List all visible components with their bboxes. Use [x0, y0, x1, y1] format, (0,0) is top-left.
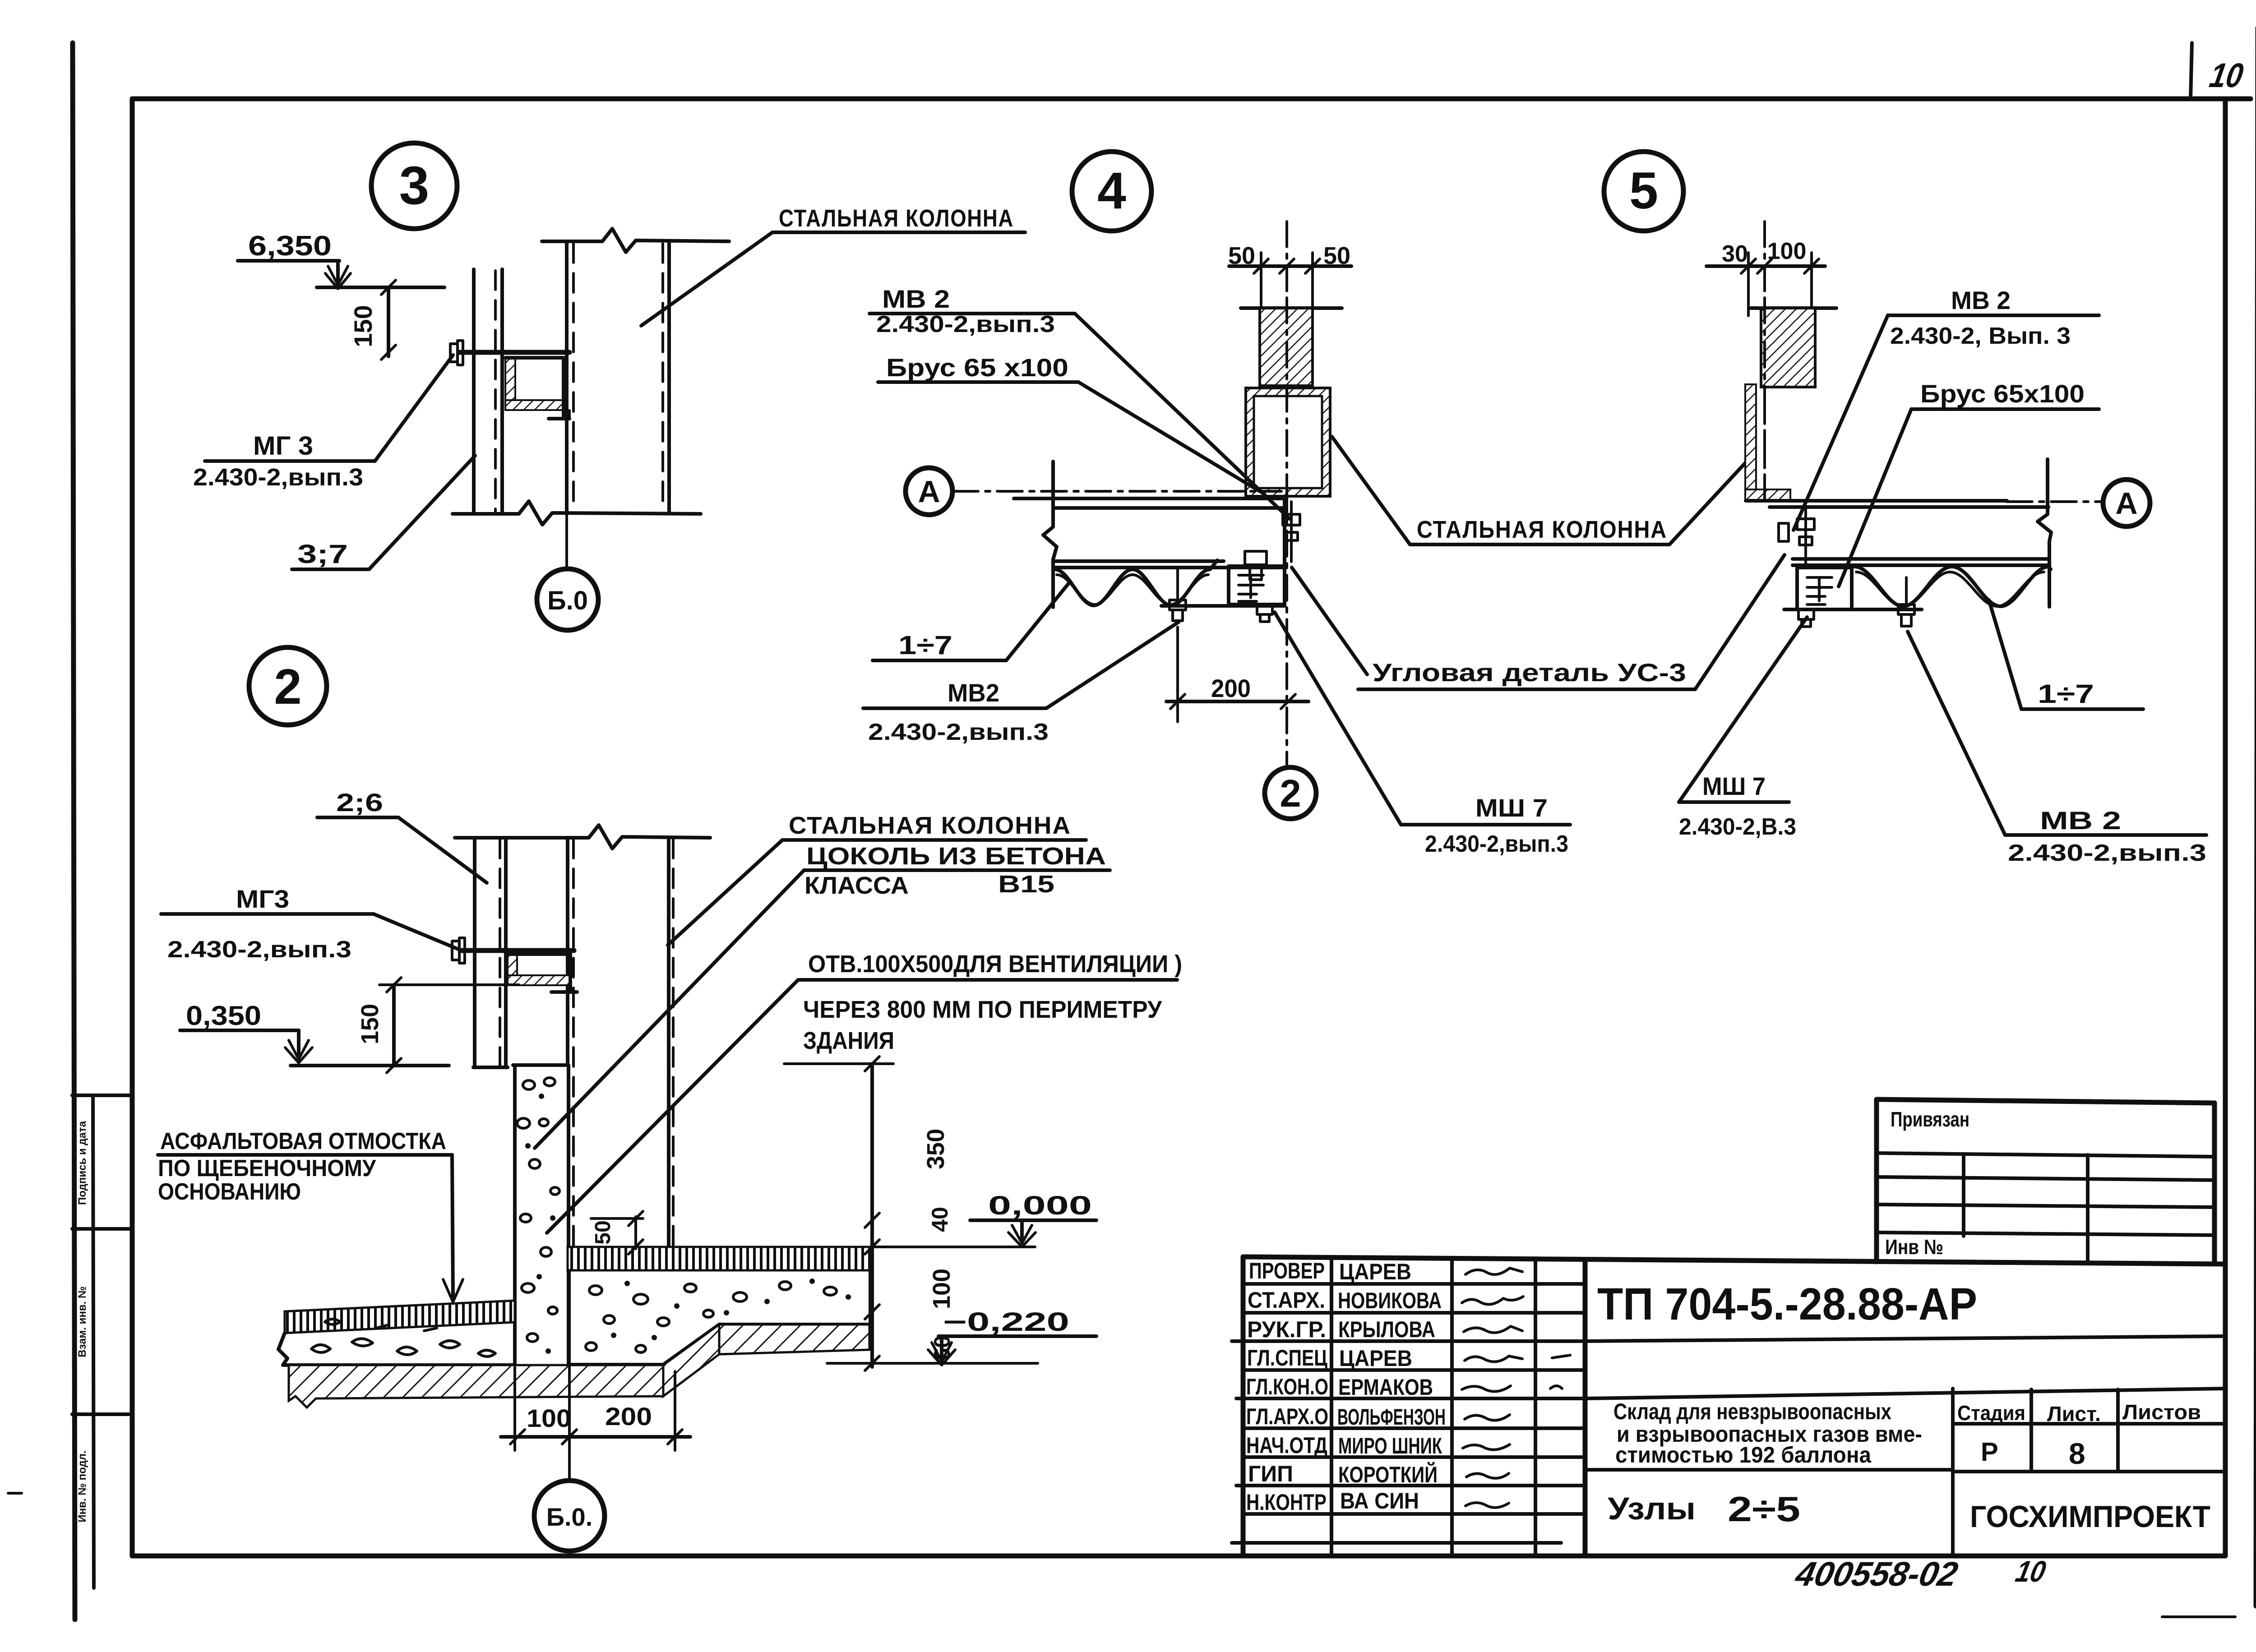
wave right end edge (detail 5) [2048, 568, 2051, 607]
svg-text:6,350: 6,350 [248, 231, 332, 262]
bracket plate (detail 3) [459, 350, 569, 355]
svg-text:Б.0: Б.0 [547, 586, 588, 615]
svg-text:Угловая деталь УС-3: Угловая деталь УС-3 [1373, 658, 1686, 687]
svg-text:100: 100 [928, 1269, 955, 1309]
svg-text:СТАЛЬНАЯ КОЛОННА: СТАЛЬНАЯ КОЛОННА [779, 205, 1014, 232]
svg-text:60: 60 [929, 1335, 955, 1361]
leader МШ7 (detail 4) [1275, 612, 1401, 825]
svg-text:200: 200 [605, 1402, 652, 1431]
top break line (detail 2) [455, 825, 710, 849]
concrete panel (detail 5) [1751, 306, 1836, 310]
corner plate small (detail 4) [1245, 551, 1267, 565]
svg-text:4: 4 [1097, 162, 1126, 220]
leader МГ3 to bolt (detail 3) [375, 355, 453, 461]
svg-text:2.430-2,В.3: 2.430-2,В.3 [1679, 814, 1796, 840]
svg-text:ЦАРЕВ: ЦАРЕВ [1339, 1259, 1411, 1284]
svg-text:ВА СИН: ВА СИН [1340, 1488, 1419, 1514]
svg-text:СТАЛЬНАЯ КОЛОННА: СТАЛЬНАЯ КОЛОННА [789, 812, 1071, 839]
leader Цоколь (detail 2) [535, 870, 804, 1148]
corner bolt pin (detail 4) [1290, 502, 1293, 562]
axis dash-dot (detail 5) [1763, 221, 1766, 500]
svg-text:2.430-2,вып.3: 2.430-2,вып.3 [167, 937, 351, 963]
leader УС-3 left (detail 4) [1292, 568, 1367, 674]
svg-text:2.430-2, Вып. 3: 2.430-2, Вып. 3 [1890, 323, 2071, 349]
axis 2 overlay over brus box (detail 4) [1285, 298, 1288, 496]
top break line (detail 3) [542, 229, 729, 252]
steel column flanges (detail 3) [565, 241, 569, 513]
svg-text:Узлы: Узлы [1608, 1491, 1696, 1526]
axis line to Б.0 (detail 2) [568, 1270, 571, 1481]
title block top edge [1243, 1257, 2224, 1264]
svg-text:ЗДАНИЯ: ЗДАНИЯ [803, 1027, 894, 1054]
svg-text:0,000: 0,000 [988, 1191, 1092, 1220]
bolt below wave (detail 5) [1905, 577, 1908, 605]
svg-text:РУК.ГР.: РУК.ГР. [1247, 1317, 1326, 1342]
band right edge (detail 4) [1283, 498, 1286, 606]
paper left edge [73, 43, 75, 1620]
walkway base speckle band (detail 2) [278, 1333, 515, 1365]
svg-text:ЕРМАКОВ: ЕРМАКОВ [1338, 1375, 1433, 1400]
svg-text:ПРОВЕР: ПРОВЕР [1249, 1258, 1325, 1283]
leader 3;7 to panel (detail 3) [369, 456, 475, 569]
leader Стальная колонна to detail 4 [1332, 437, 1410, 545]
privyazan grid lines [1877, 1153, 2214, 1157]
underlay stones (detail 2) [586, 1280, 850, 1352]
bottom break line (detail 3) [453, 501, 701, 525]
leader МВ2 top (detail 5) [1794, 315, 1888, 530]
svg-text:150: 150 [349, 305, 377, 347]
svg-text:−0,220: −0,220 [943, 1307, 1069, 1337]
profiled sheet wave (detail 4) [1055, 560, 1217, 605]
stray mark left margin [8, 1492, 22, 1495]
plinth stones (detail 2) [517, 1078, 559, 1352]
svg-text:Р: Р [1981, 1437, 1998, 1467]
svg-text:50: 50 [591, 1220, 615, 1244]
svg-text:ЧЕРЕЗ 800 ММ ПО ПЕРИМЕТРУ: ЧЕРЕЗ 800 ММ ПО ПЕРИМЕТРУ [803, 996, 1162, 1023]
dimension 150 (detail 3) [387, 287, 390, 356]
svg-text:3;7: 3;7 [297, 540, 348, 569]
leader Брус (detail 4) [1078, 382, 1260, 491]
svg-text:1÷7: 1÷7 [2038, 679, 2094, 709]
axis А dash-dot line (detail 4) [953, 490, 1281, 493]
svg-text:2.430-2,вып.3: 2.430-2,вып.3 [1425, 831, 1568, 857]
svg-text:8: 8 [2069, 1437, 2085, 1470]
band right break edge (detail 5) [2038, 459, 2051, 567]
axis А bubble (detail 4) [906, 468, 952, 515]
band bottom chord (detail 5) [1793, 557, 2048, 561]
svg-text:2.430-2,вып.3: 2.430-2,вып.3 [868, 719, 1049, 745]
leader 1÷7 (detail 5) [1989, 600, 2021, 709]
svg-text:Брус 65х100: Брус 65х100 [1920, 379, 2085, 408]
leader УС-3 right (detail 5) [1695, 555, 1784, 689]
floor finish hatch (detail 2) [568, 1247, 870, 1270]
leader Брус (detail 5) [1839, 409, 1911, 586]
svg-text:АСФАЛЬТОВАЯ ОТМОСТКА: АСФАЛЬТОВАЯ ОТМОСТКА [160, 1128, 446, 1154]
band left break edge (detail 4) [1043, 461, 1057, 607]
leader 1÷7 (detail 4) [1006, 582, 1070, 660]
УС-3 box (detail 4) [1229, 566, 1285, 605]
detail 5 bubble [1604, 152, 1683, 231]
line below Склад cell [1585, 1468, 1953, 1472]
svg-text:СТ.АРХ.: СТ.АРХ. [1248, 1287, 1325, 1313]
svg-text:Листов: Листов [2122, 1400, 2201, 1424]
brus box (detail 3) [505, 358, 515, 410]
leader Стальная колонна (detail 2) [668, 840, 782, 945]
leader to column (detail 3) [641, 232, 772, 326]
svg-text:2.430-2,вып.3: 2.430-2,вып.3 [876, 311, 1055, 337]
svg-text:МВ 2: МВ 2 [1951, 286, 2011, 314]
svg-text:СТАЛЬНАЯ КОЛОННА: СТАЛЬНАЯ КОЛОННА [1417, 516, 1667, 543]
leader МВ2 top (detail 4) [1075, 314, 1290, 519]
svg-text:ПО ЩЕБЕНОЧНОМУ: ПО ЩЕБЕНОЧНОМУ [158, 1155, 376, 1181]
svg-text:100: 100 [1767, 238, 1807, 264]
svg-text:ГЛ.КОН.О: ГЛ.КОН.О [1246, 1374, 1328, 1399]
svg-text:Брус 65 х100: Брус 65 х100 [886, 353, 1068, 382]
svg-text:Подпись и дата: Подпись и дата [76, 1121, 88, 1205]
left margin rotated captions [76, 1121, 88, 1522]
svg-text:ГЛ.СПЕЦ: ГЛ.СПЕЦ [1247, 1345, 1327, 1371]
svg-text:МГ3: МГ3 [236, 885, 289, 913]
svg-text:3: 3 [399, 155, 430, 216]
band bottom flange (detail 5) [1784, 608, 1922, 611]
axis А bubble (detail 5) [2103, 480, 2150, 526]
band bottom chord (detail 4) [1055, 559, 1224, 563]
axis bubble Б.0 (detail 2) [534, 1481, 605, 1551]
signature table row labels [1246, 1258, 1328, 1515]
svg-text:НАЧ.ОТД: НАЧ.ОТД [1246, 1433, 1327, 1458]
leader МВ2 bottom (detail 4) [1046, 622, 1179, 708]
svg-text:стимостью 192 баллона: стимостью 192 баллона [1615, 1442, 1872, 1467]
svg-text:ГИП: ГИП [1248, 1461, 1293, 1486]
leader Отв (detail 2) [547, 980, 798, 1233]
svg-text:ЦАРЕВ: ЦАРЕВ [1339, 1346, 1412, 1371]
svg-text:МВ 2: МВ 2 [882, 285, 950, 313]
svg-text:ГЛ.АРХ.О: ГЛ.АРХ.О [1246, 1404, 1328, 1429]
column flange left (detail 2) [566, 838, 569, 1065]
svg-text:200: 200 [1211, 674, 1251, 702]
right dim stack (detail 2) [870, 1064, 874, 1367]
svg-text:Лист.: Лист. [2047, 1402, 2101, 1426]
title block left edge [1241, 1257, 1246, 1556]
axis А dash-dot (detail 5) [2007, 500, 2103, 503]
svg-text:Инв №: Инв № [1885, 1235, 1943, 1259]
leader Стальная колонна to detail 5 [1669, 461, 1747, 545]
wall band top chord (detail 4) [1014, 497, 1286, 500]
svg-text:10: 10 [2207, 57, 2246, 95]
svg-text:350: 350 [922, 1129, 949, 1169]
svg-text:2: 2 [1280, 772, 1301, 815]
leader МШ7 (detail 5) [1679, 617, 1807, 802]
svg-text:ОСНОВАНИЮ: ОСНОВАНИЮ [158, 1179, 301, 1205]
bolt assembly upper (detail 5) [1804, 508, 1807, 564]
svg-text:2÷5: 2÷5 [1728, 1489, 1800, 1529]
svg-text:1÷7: 1÷7 [898, 631, 952, 660]
svg-text:40: 40 [927, 1207, 952, 1232]
left margin stamp column line [93, 1095, 94, 1588]
svg-text:В15: В15 [998, 871, 1054, 898]
svg-text:100: 100 [527, 1404, 571, 1432]
cell ТП separator [1585, 1336, 2224, 1341]
svg-text:2: 2 [274, 659, 301, 715]
svg-text:Взам. инв. №: Взам. инв. № [76, 1286, 88, 1357]
wall panel (detail 2) [473, 838, 476, 1067]
svg-text:МГ 3: МГ 3 [253, 431, 313, 461]
axis overlay over panel (detail 5) [1763, 298, 1766, 498]
leader 2;6 (detail 2) [398, 817, 487, 883]
axis 2 bubble (detail 4) [1265, 767, 1316, 819]
band top chord (detail 5) [1746, 499, 2007, 503]
svg-text:5: 5 [1629, 162, 1658, 220]
stray mark bottom right [2162, 1615, 2235, 1618]
svg-text:Привязан: Привязан [1891, 1107, 1969, 1131]
dim 50 floor (detail 2) [591, 1217, 643, 1220]
soil hatch (detail 2) [289, 1365, 663, 1407]
svg-text:Инв. № подл.: Инв. № подл. [76, 1450, 88, 1522]
svg-text:ОТВ.100X500ДЛЯ ВЕНТИЛЯЦИИ ): ОТВ.100X500ДЛЯ ВЕНТИЛЯЦИИ ) [808, 951, 1182, 978]
svg-text:МВ 2: МВ 2 [2040, 806, 2121, 835]
svg-text:Склад для невзрывоопасных: Склад для невзрывоопасных [1613, 1399, 1891, 1424]
brus box section (detail 4) [1246, 388, 1330, 496]
svg-text:МИРО ШНИК: МИРО ШНИК [1338, 1433, 1442, 1458]
profiled sheet wave (detail 5) [1854, 567, 2051, 606]
leader Асфальтовая arrow (detail 2) [452, 1155, 453, 1298]
svg-text:ГОСХИМПРОЕКТ: ГОСХИМПРОЕКТ [1970, 1500, 2210, 1534]
wall panel (detail 3) [472, 269, 476, 513]
svg-text:150: 150 [356, 1004, 384, 1044]
svg-text:ЦОКОЛЬ ИЗ БЕТОНА: ЦОКОЛЬ ИЗ БЕТОНА [806, 843, 1106, 870]
svg-text:ВОЛЬФЕНЗОН: ВОЛЬФЕНЗОН [1337, 1404, 1446, 1430]
bolt below box (detail 5) [1798, 609, 1814, 619]
svg-text:Стадия: Стадия [1957, 1401, 2025, 1425]
signature table column lines [1330, 1258, 1333, 1556]
detail 2 bubble [249, 647, 327, 725]
signature table row lines [1243, 1282, 1585, 1286]
privyazan box outline [1877, 1099, 2214, 1262]
axis bubble Б.0 (detail 3) [537, 569, 598, 630]
line above Склад cell [1585, 1389, 2224, 1398]
bolt (detail 3) [450, 344, 458, 362]
signature scribbles [1462, 1268, 1570, 1508]
band bottom flange (detail 4) [1161, 604, 1285, 608]
left margin stamp dividers [72, 1094, 132, 1097]
svg-text:А: А [918, 475, 940, 509]
svg-text:2;6: 2;6 [336, 788, 383, 817]
bolt (detail 2) [452, 941, 459, 960]
svg-text:30: 30 [1722, 241, 1748, 267]
signature table names [1337, 1259, 1446, 1514]
bolt under wave (detail 4) [1176, 569, 1179, 600]
svg-text:2.430-2,вып.3: 2.430-2,вып.3 [193, 464, 363, 491]
svg-text:МВ2: МВ2 [948, 678, 999, 707]
corner steel angle (detail 5) [1745, 384, 1756, 497]
svg-text:А: А [2115, 486, 2137, 521]
leader МГ3 (detail 2) [374, 914, 465, 952]
svg-text:Б.0.: Б.0. [546, 1503, 593, 1531]
svg-text:КОРОТКИЙ: КОРОТКИЙ [1338, 1462, 1438, 1487]
concrete plinth (detail 2) [513, 1065, 517, 1365]
column flange right (detail 2) [667, 838, 670, 1247]
stage mini table [1951, 1389, 1955, 1555]
svg-text:ТП 704-5.-28.88-АР: ТП 704-5.-28.88-АР [1597, 1279, 1977, 1329]
walkway asphalt hatch (detail 2) [285, 1301, 515, 1333]
svg-text:МШ 7: МШ 7 [1475, 794, 1548, 822]
svg-text:2.430-2,вып.3: 2.430-2,вып.3 [2008, 840, 2206, 866]
axis 2 dash-dot (detail 4) [1285, 221, 1288, 767]
svg-text:0,350: 0,350 [186, 1001, 261, 1031]
svg-text:400558-02: 400558-02 [1791, 1555, 1961, 1593]
leader МВ2 bottom (detail 5) [1908, 632, 2005, 835]
svg-text:КЛАССА: КЛАССА [804, 872, 909, 899]
axis line to Б.0 (detail 3) [565, 514, 568, 569]
brus box (detail 2) [508, 954, 517, 985]
bracket plate (detail 2) [461, 948, 574, 953]
concrete panel (detail 4) [1241, 306, 1342, 310]
svg-text:Н.КОНТР: Н.КОНТР [1246, 1490, 1327, 1515]
УС-3 box (detail 5) [1797, 568, 1852, 609]
detail 4 bubble [1072, 152, 1151, 231]
detail 3 bubble [371, 143, 457, 229]
floor underlay outline (detail 2) [569, 1270, 870, 1365]
svg-text:КРЫЛОВА: КРЫЛОВА [1338, 1317, 1435, 1342]
bolt under УС-3 (detail 4) [1257, 605, 1272, 614]
dim 150 (detail 2) [379, 983, 519, 986]
page number tick top right [2191, 43, 2192, 99]
svg-text:МШ 7: МШ 7 [1702, 772, 1766, 800]
svg-text:НОВИКОВА: НОВИКОВА [1338, 1288, 1442, 1313]
